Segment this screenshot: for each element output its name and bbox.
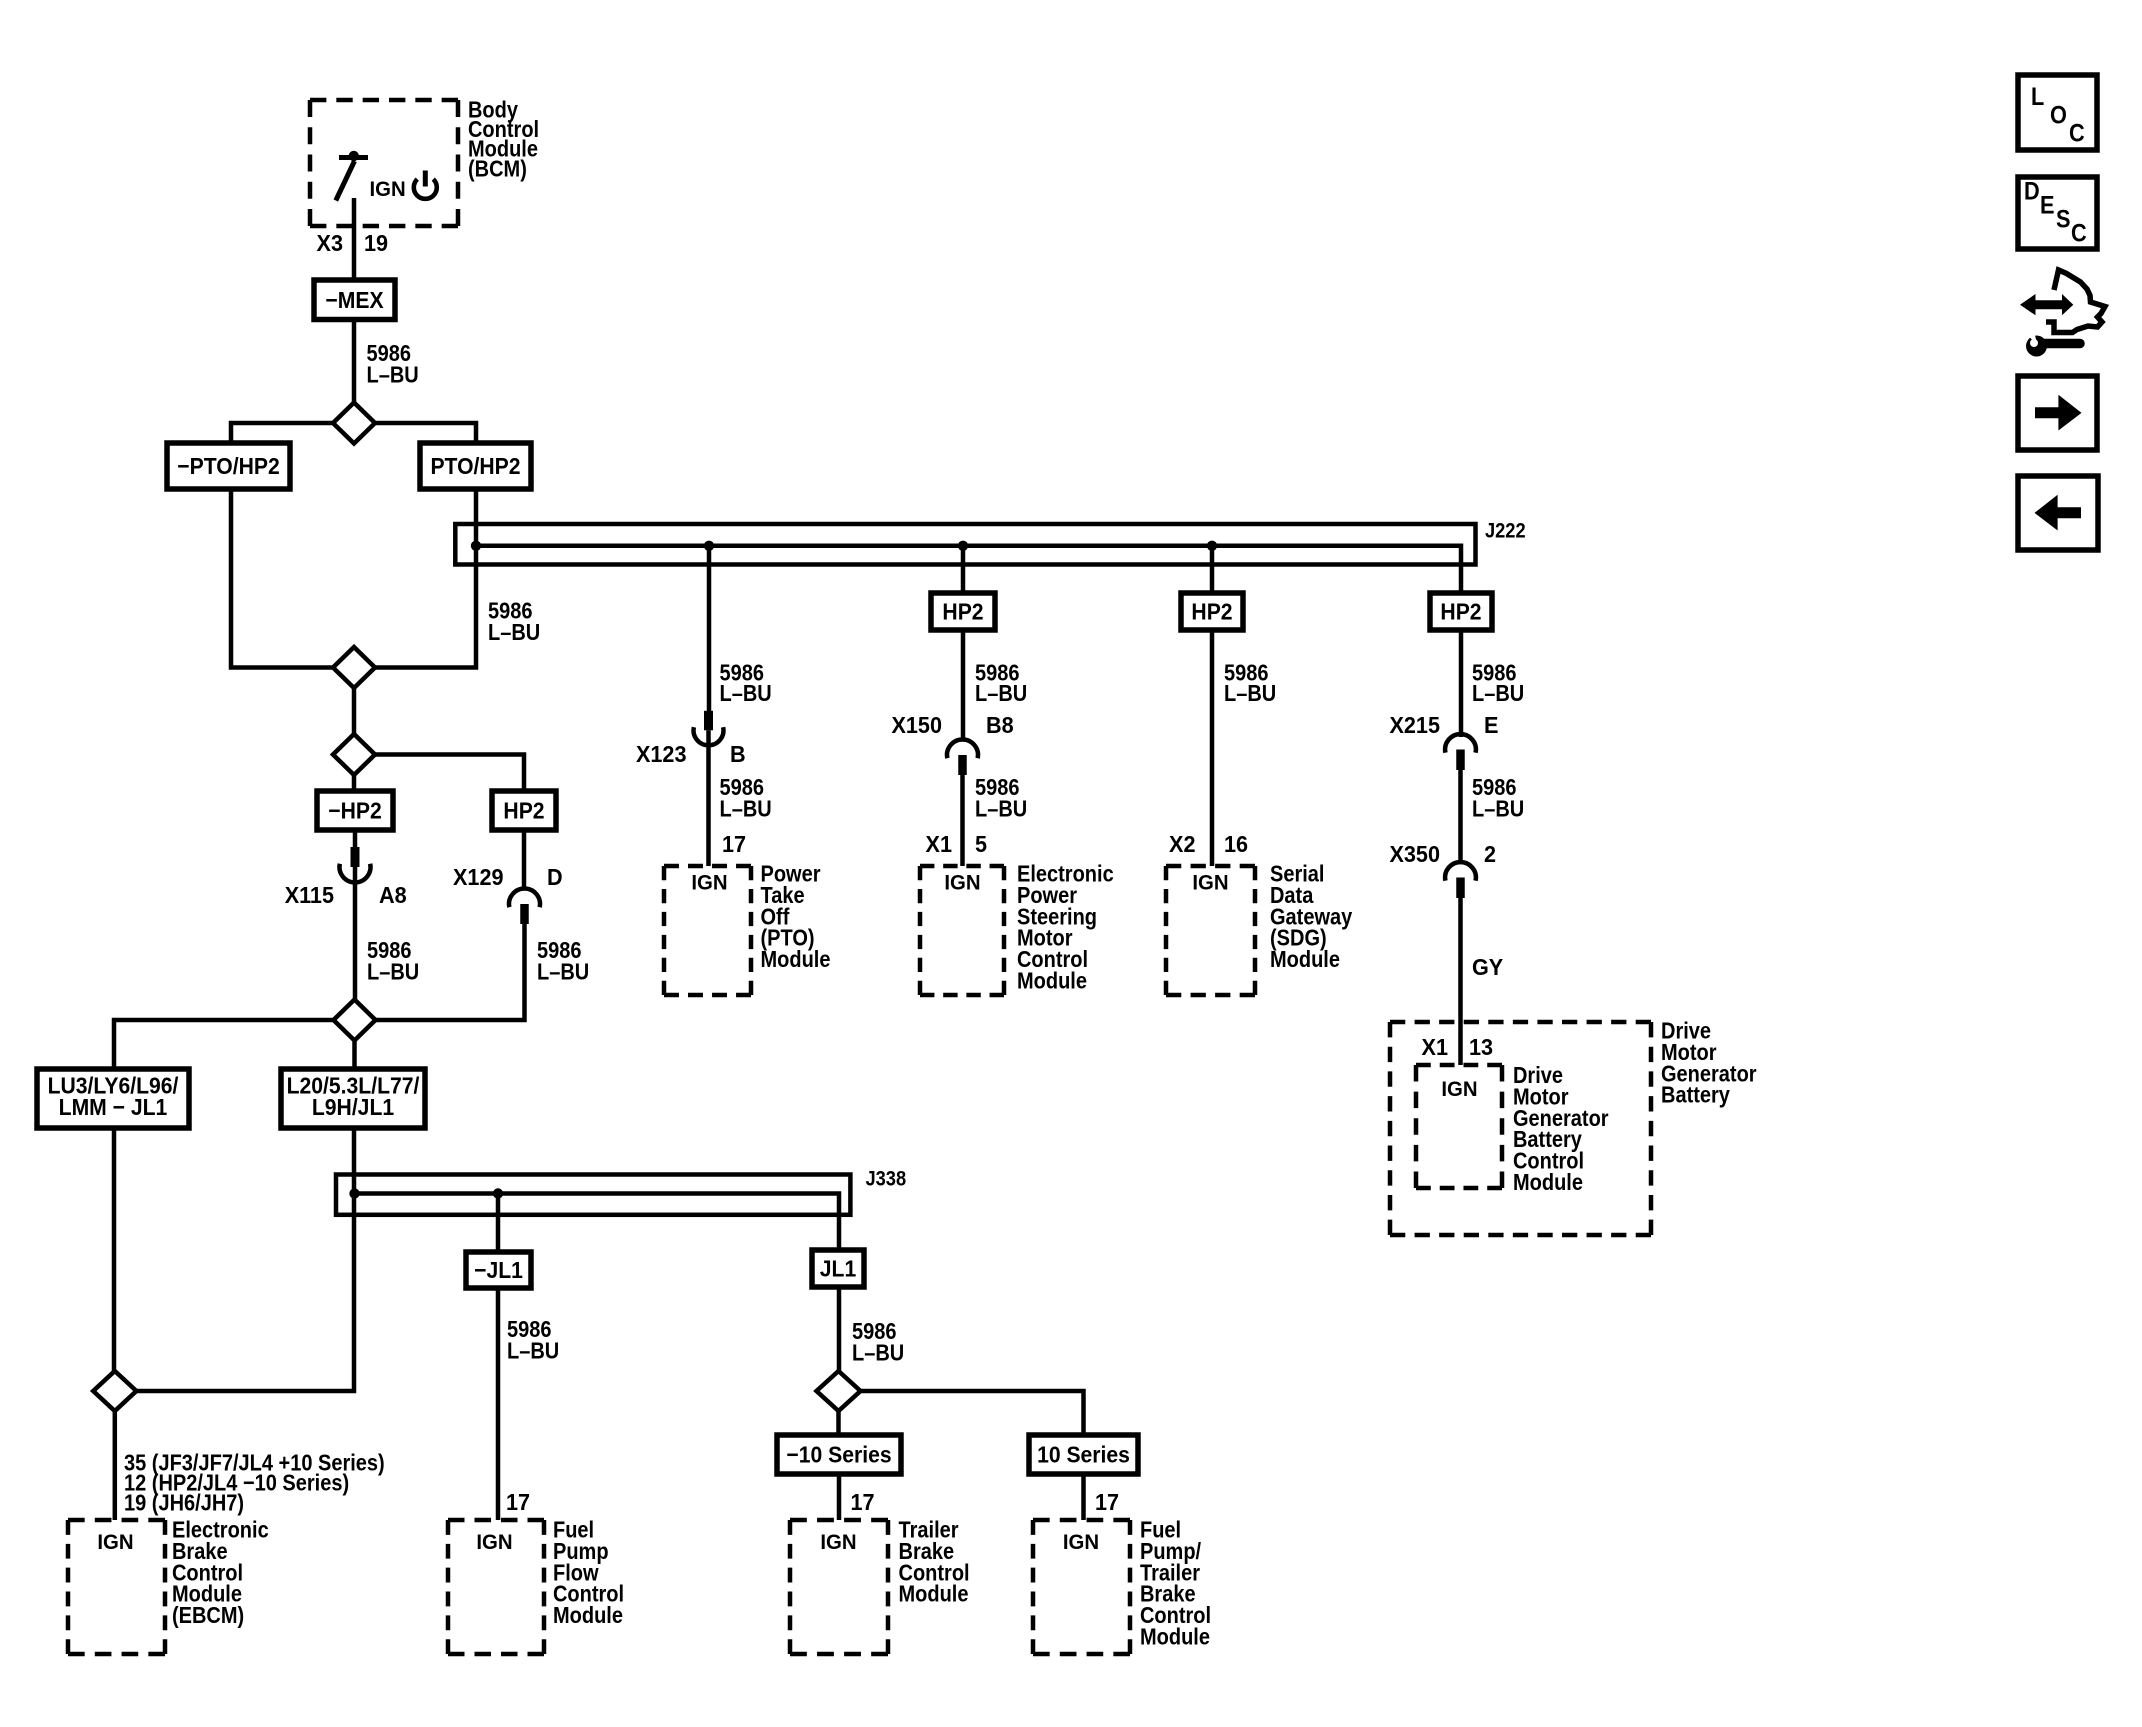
svg-text:IGN: IGN [1441, 1078, 1477, 1101]
wire label 5986 L-BU (below JL1) [852, 1318, 897, 1345]
terminal label IGN (PTO) [691, 871, 727, 894]
svg-text:17: 17 [851, 1489, 875, 1515]
svg-text:2: 2 [1484, 841, 1496, 867]
wire diamond2 to diamond3 [352, 688, 357, 734]
wire label 5986 L-BU (below bus left) [488, 597, 533, 624]
option box LU3/LY6/L96/LMM - JL1 [37, 1069, 189, 1128]
label X215 [1390, 712, 1440, 738]
pin label X2 (SDG) [1169, 831, 1195, 857]
module box Drive Motor Generator Battery outer dashed [1390, 1022, 1651, 1235]
power symbol inside BCM [414, 171, 437, 199]
splice diamond 3 [333, 734, 375, 775]
module box Fuel Pump/Trailer Brake Control dashed [1033, 1520, 1130, 1654]
svg-text:L–BU: L–BU [975, 795, 1027, 822]
svg-text:10 Series: 10 Series [1037, 1442, 1130, 1468]
svg-text:Battery: Battery [1661, 1081, 1730, 1108]
terminal label IGN (trailer brake) [820, 1531, 856, 1554]
wire X115 to diamond 4 [353, 867, 358, 1000]
svg-text:L–BU: L–BU [1224, 680, 1276, 707]
splice diamond 4 [334, 1000, 376, 1041]
icon vehicle routing with wrench [2020, 270, 2105, 357]
module box BCM (Body Control Module) dashed outline [310, 100, 458, 226]
svg-text:L–BU: L–BU [1472, 795, 1524, 822]
module box Fuel Pump Flow Control dashed [448, 1520, 544, 1654]
svg-text:GY: GY [1472, 954, 1503, 980]
svg-text:X123: X123 [636, 741, 686, 767]
label X115 [285, 882, 334, 908]
wire diamond3 to -HP2 [352, 775, 357, 791]
label Electronic Brake Control Module (EBCM) [172, 1516, 269, 1543]
svg-text:(BCM): (BCM) [468, 155, 527, 182]
svg-text:J338: J338 [866, 1167, 907, 1190]
svg-text:L–BU: L–BU [367, 958, 419, 985]
wire label 5986 L-BU (PTO branch lower) [719, 774, 764, 801]
pin label 13 (drive) [1469, 1034, 1493, 1060]
label IGN inside BCM [370, 178, 406, 201]
wire HP2 to connector X129 [522, 830, 527, 889]
wire diamond3 to HP2 (right) [375, 755, 524, 792]
label Trailer Brake Control Module [899, 1516, 960, 1543]
svg-text:13: 13 [1469, 1034, 1493, 1060]
label Power Take Off (PTO) Module [761, 860, 822, 887]
svg-text:−HP2: −HP2 [328, 798, 381, 824]
junction dot on J338 at x354 [349, 1188, 359, 1198]
svg-text:HP2: HP2 [1191, 599, 1232, 625]
svg-text:Module: Module [1140, 1623, 1210, 1650]
label Drive Motor Generator Battery [1661, 1017, 1711, 1044]
module box EPS dashed [920, 866, 1004, 995]
svg-text:PTO/HP2: PTO/HP2 [430, 453, 520, 479]
svg-text:L–BU: L–BU [488, 619, 540, 646]
option box PTO/HP2 [420, 443, 531, 489]
wire diamond5 to EBCM module [113, 1411, 118, 1520]
wire HP2 to SDG module [1210, 630, 1215, 866]
svg-text:L–BU: L–BU [507, 1337, 559, 1364]
svg-text:C: C [2069, 119, 2085, 147]
wire -JL1 to Fuel Pump Flow Control Module [496, 1288, 501, 1520]
svg-text:JL1: JL1 [820, 1256, 856, 1282]
label Fuel Pump/Trailer Brake Control Module [1140, 1516, 1181, 1543]
svg-text:L–BU: L–BU [719, 795, 771, 822]
svg-text:L–BU: L–BU [719, 680, 771, 707]
wire diamond4 left to LU3 box [114, 1020, 334, 1069]
svg-text:Module: Module [553, 1602, 623, 1629]
wire J222 to HP2 (EPS) [961, 546, 966, 593]
svg-text:B: B [730, 741, 746, 767]
wire -MEX to splice diamond [352, 320, 357, 403]
svg-text:IGN: IGN [370, 178, 406, 201]
svg-text:X115: X115 [285, 882, 334, 908]
svg-text:L9H/JL1: L9H/JL1 [312, 1094, 394, 1120]
wire J222 to connector X123 [707, 546, 712, 711]
label X123 [636, 741, 686, 767]
pin label 16 (SDG) [1224, 831, 1248, 857]
terminal label IGN (SDG) [1192, 871, 1228, 894]
pin label 5 (EPS) [975, 831, 987, 857]
splice diamond 6 [817, 1371, 861, 1411]
label X350 [1390, 841, 1440, 867]
svg-text:HP2: HP2 [1440, 599, 1481, 625]
icon button arrow right [2018, 376, 2097, 450]
pin label A8 [379, 882, 407, 908]
wire 10 Series to Fuel Pump/Trailer Brake Control Module [1081, 1474, 1086, 1520]
connector X115 (bar and cup) [340, 847, 371, 883]
svg-text:B8: B8 [986, 712, 1014, 738]
svg-text:L–BU: L–BU [975, 680, 1027, 707]
pin label 17 (fuel pump flow) [506, 1489, 530, 1515]
svg-text:X350: X350 [1390, 841, 1440, 867]
wire label 5986 L-BU (SDG) [1224, 659, 1269, 686]
splice diamond 5 [93, 1371, 136, 1411]
wire label GY [1472, 954, 1503, 980]
svg-text:S: S [2056, 205, 2071, 233]
terminal label IGN (fuel pump/trailer) [1063, 1531, 1099, 1554]
wire label 5986 L-BU (drive upper) [1472, 659, 1517, 686]
wire L20 down through bus J338 to diamond 5 [137, 1128, 355, 1391]
svg-text:X1: X1 [926, 831, 952, 857]
svg-text:IGN: IGN [944, 871, 980, 894]
note text 35/12/19 circuit options [124, 1449, 385, 1476]
option box -10 Series [777, 1435, 901, 1474]
connector X350 (cap and bar) [1445, 862, 1476, 898]
svg-text:Module: Module [899, 1580, 969, 1607]
wire HP2 to connector X150 [961, 630, 966, 740]
svg-text:X129: X129 [453, 864, 503, 890]
wire diamond6 to -10 Series [836, 1411, 841, 1435]
svg-text:E: E [1484, 712, 1499, 738]
svg-text:A8: A8 [379, 882, 407, 908]
option box HP2 (SDG branch) [1181, 593, 1243, 630]
option box -HP2 [317, 791, 393, 830]
svg-text:IGN: IGN [1192, 871, 1228, 894]
module box Drive Motor Generator Battery Control inner dashed [1416, 1065, 1502, 1188]
option box HP2 (drive branch) [1430, 593, 1492, 630]
wire JL1 to diamond 6 [837, 1287, 842, 1371]
pin label 2 [1484, 841, 1496, 867]
bus J338 middle wire [355, 1194, 840, 1251]
svg-text:L–BU: L–BU [1472, 680, 1524, 707]
svg-text:16: 16 [1224, 831, 1248, 857]
wire label 5986 L-BU (below -JL1) [507, 1316, 552, 1343]
terminal label IGN (EBCM) [97, 1531, 133, 1554]
pin label B8 [986, 712, 1014, 738]
svg-text:17: 17 [722, 831, 746, 857]
svg-text:IGN: IGN [691, 871, 727, 894]
pin label X3 [317, 230, 343, 256]
module box EBCM dashed [68, 1520, 165, 1654]
svg-text:X150: X150 [892, 712, 942, 738]
wire PTO/HP2 down through bus J222 to diamond 2 [375, 489, 477, 668]
wire LU3 down to diamond 5 [112, 1128, 117, 1371]
svg-text:17: 17 [506, 1489, 530, 1515]
svg-text:Module: Module [761, 946, 831, 973]
wire label 5986 L-BU (left, above diamond4) [367, 937, 412, 964]
label Electronic Power Steering Motor Control Module [1017, 860, 1114, 887]
wire J222 to HP2 (SDG) [1210, 546, 1215, 593]
svg-text:D: D [2024, 177, 2040, 205]
connector X123 (bar and cup) [694, 711, 724, 746]
wire label 5986 L-BU (PTO branch upper) [719, 659, 764, 686]
wire label 5986 L-BU (EPS upper) [975, 659, 1020, 686]
pin label 19 [364, 230, 388, 256]
svg-text:X3: X3 [317, 230, 343, 256]
wire -HP2 to connector X115 [353, 830, 358, 847]
label Drive Motor Generator Battery Control Module [1513, 1062, 1563, 1089]
svg-text:19 (JH6/JH7): 19 (JH6/JH7) [124, 1489, 244, 1516]
label X150 [892, 712, 942, 738]
pin label E [1484, 712, 1499, 738]
label J222 [1485, 519, 1526, 542]
wire -10 Series to Trailer Brake Control Module [837, 1474, 842, 1520]
wire from BCM switch to -MEX box [352, 198, 357, 280]
module box Trailer Brake Control dashed [790, 1520, 888, 1654]
svg-text:L–BU: L–BU [537, 958, 589, 985]
svg-text:−JL1: −JL1 [474, 1257, 523, 1283]
module box PTO dashed [664, 866, 751, 995]
svg-text:19: 19 [364, 230, 388, 256]
label X129 [453, 864, 503, 890]
wire diamond1 to -PTO/HP2 [231, 423, 334, 443]
label J338 [866, 1167, 907, 1190]
svg-text:5: 5 [975, 831, 987, 857]
splice diamond 2 [333, 647, 375, 688]
bus J222 middle wire [476, 546, 1461, 593]
wire X150 to EPS module [960, 775, 965, 866]
option box HP2 (left pair) [492, 791, 556, 830]
pin label X1 (EPS) [926, 831, 952, 857]
svg-text:IGN: IGN [97, 1531, 133, 1554]
wire X350 to Drive Motor Generator Battery Control Module [1458, 898, 1463, 1065]
svg-text:X1: X1 [1422, 1034, 1448, 1060]
svg-text:E: E [2040, 191, 2055, 219]
svg-text:J222: J222 [1485, 519, 1526, 542]
option box JL1 [812, 1250, 864, 1287]
pin label B [730, 741, 746, 767]
terminal label IGN (drive) [1441, 1078, 1477, 1101]
svg-text:LMM − JL1: LMM − JL1 [59, 1094, 168, 1120]
pin label 17 (PTO) [722, 831, 746, 857]
svg-text:Module: Module [1513, 1169, 1583, 1196]
wire label 5986 L-BU (drive lower) [1472, 774, 1517, 801]
svg-text:(EBCM): (EBCM) [172, 1602, 244, 1629]
svg-text:X215: X215 [1390, 712, 1440, 738]
connector X129 (cap and bar) [509, 888, 540, 924]
pin label 17 (fuel pump/trailer) [1095, 1489, 1119, 1515]
pin label 17 (trailer brake) [851, 1489, 875, 1515]
wire HP2 to connector X215 [1459, 630, 1464, 737]
wire X215 to X350 [1458, 770, 1463, 864]
option box L20/5.3L/L77/L9H/JL1 [281, 1069, 425, 1128]
svg-text:D: D [547, 864, 563, 890]
wire J338 to -JL1 [496, 1194, 501, 1253]
wire diamond1 to PTO/HP2 [375, 423, 477, 443]
option box 10 Series [1029, 1435, 1138, 1474]
wire label 5986 L-BU (below -MEX) [366, 340, 411, 367]
icon button LOC [2018, 75, 2097, 150]
svg-text:−PTO/HP2: −PTO/HP2 [177, 453, 279, 479]
junction dot on J222 at x476 [471, 541, 481, 551]
module box SDG dashed [1166, 866, 1255, 995]
connector X215 (cap and bar) [1445, 734, 1476, 770]
svg-text:IGN: IGN [1063, 1531, 1099, 1554]
svg-text:17: 17 [1095, 1489, 1119, 1515]
wire diamond4 down to L20 box [352, 1041, 357, 1070]
svg-text:X2: X2 [1169, 831, 1195, 857]
svg-text:−10 Series: −10 Series [786, 1442, 891, 1468]
icon button DESC [2018, 177, 2097, 249]
wire label 5986 L-BU (EPS lower) [975, 774, 1020, 801]
junction dot on J222 at x1212 [1207, 541, 1217, 551]
svg-text:IGN: IGN [820, 1531, 856, 1554]
label Body Control Module (BCM) [468, 96, 518, 123]
svg-text:L–BU: L–BU [852, 1339, 904, 1366]
option box HP2 (EPS branch) [931, 593, 995, 630]
svg-text:C: C [2071, 219, 2087, 247]
pin label D [547, 864, 563, 890]
icon button arrow left [2018, 476, 2098, 550]
label Fuel Pump Flow Control Module [553, 1516, 594, 1543]
terminal label IGN (EPS) [944, 871, 980, 894]
wire diamond6 right to 10 Series [861, 1391, 1084, 1435]
wire X123 to PTO module [706, 730, 711, 866]
svg-text:L–BU: L–BU [366, 361, 418, 388]
option box -PTO/HP2 [167, 443, 290, 489]
junction dot on J222 at x709 [704, 541, 714, 551]
terminal label IGN (fuel pump flow) [476, 1531, 512, 1554]
label Serial Data Gateway (SDG) Module [1270, 860, 1324, 887]
connector X150 (cap and bar) [947, 739, 978, 775]
wire label 5986 L-BU (right, above diamond4) [537, 937, 582, 964]
splice diamond 1 [333, 403, 375, 444]
junction dot on J222 at x963 [958, 541, 968, 551]
switch IGN inside BCM [336, 151, 368, 201]
svg-text:Module: Module [1017, 967, 1087, 994]
svg-text:O: O [2050, 101, 2067, 129]
svg-text:Module: Module [1270, 946, 1340, 973]
svg-text:−MEX: −MEX [325, 287, 383, 313]
option box -MEX [314, 280, 395, 320]
svg-text:HP2: HP2 [503, 798, 544, 824]
wire X129 down to diamond 4 [376, 924, 525, 1021]
svg-text:HP2: HP2 [942, 599, 983, 625]
junction dot on J338 at x498 [493, 1188, 503, 1198]
pin label X1 (drive) [1422, 1034, 1448, 1060]
wire -PTO/HP2 down to diamond 2 [231, 489, 334, 668]
svg-text:L: L [2031, 83, 2044, 111]
bus J338 outline [336, 1175, 850, 1215]
bus J222 outline [455, 524, 1475, 565]
svg-text:IGN: IGN [476, 1531, 512, 1554]
option box -JL1 [466, 1252, 531, 1288]
